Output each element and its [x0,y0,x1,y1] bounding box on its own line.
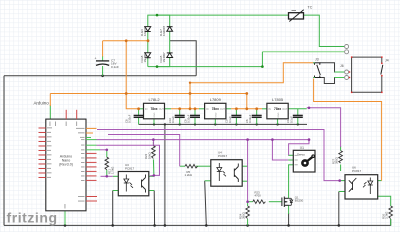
wire 5V row to R27/U6 [307,108,341,147]
WIRES-PURPLE [97,107,342,204]
optocoupler U6 PC817 (mirrored) [345,166,378,199]
capacitor C10 [168,115,185,123]
wire R11 top lead [106,150,108,157]
svg-text:PC817: PC817 [352,169,362,173]
svg-text:L7809: L7809 [210,97,222,102]
diode D-G8 (bridge bottom-left) [140,52,151,63]
wire cap C10 leads [179,109,181,116]
svg-text:390Ω: 390Ω [335,157,339,164]
thermistor TC [289,6,313,22]
svg-text:fritzing: fritzing [7,210,58,226]
wire U3 left-bottom to bus [112,191,114,226]
resistor R27 [331,151,342,164]
wire Q1 source down [288,206,290,215]
wire reg1 OUT stub [165,108,172,110]
svg-text:1N4007: 1N4007 [162,52,166,63]
wire P4 D-pin to U3 pin4 [97,145,160,175]
svg-text:78xx: 78xx [150,107,157,111]
Arduino left pin red stubs [39,128,46,178]
svg-text:IN: IN [206,108,209,111]
junction dots on ground bus [64,75,340,227]
wire cap C5 leads [235,109,237,116]
wire reg3 GND stub [277,119,279,125]
capacitor C9 [183,114,200,123]
wire P2 D-pin to R5 [108,135,180,167]
wire U6 pin4 stub [378,180,382,182]
switch J4 [351,56,389,93]
wire bottom ground bus [4,219,391,225]
U3 internal LED [124,175,133,192]
wire reg1 IN stub [139,108,144,110]
svg-text:0.1uF: 0.1uF [171,116,175,123]
wire GND rail under regulators [139,123,307,125]
purple junction dots [106,107,342,204]
diode D-G5 (bridge bottom-right) [159,52,173,63]
svg-text:78xx: 78xx [274,107,281,111]
svg-text:IN: IN [268,108,271,111]
wire C7 top green tip [102,56,104,61]
svg-text:0.33uF: 0.33uF [187,114,191,123]
wire drop to reg3 row [246,94,248,109]
wire P3 end down to servo sig pin [289,140,309,156]
svg-text:OUT: OUT [220,108,226,111]
regulator VR2 L7809 [205,97,226,119]
wire R22 top lead [152,142,154,146]
connector J6 pins [340,64,350,79]
svg-text:390Ω: 390Ω [242,212,246,219]
svg-text:GND: GND [154,112,156,117]
wire AC bottom light green to J5 pin2 [262,51,344,53]
wire R5 left lead [180,165,185,167]
fritzing watermark [7,210,58,226]
U6 internal transistor (left) [349,178,357,192]
svg-text:L7805: L7805 [272,97,284,102]
wire U3 pin3 stub [149,190,154,192]
wire U6 pin2 stub [339,191,345,193]
wire P3 branch down to servo pwr pin [272,140,288,160]
wire R23 right lead to Q1 gate [269,201,282,203]
wire reg2 GND stub [214,119,216,125]
wire P5 D-pin to R11 [100,149,107,151]
junction dots green nets [156,14,264,68]
wire reg2 IN stub [199,108,205,110]
wire row segment reg2out-reg3in [231,108,262,110]
capacitor C11 [286,115,303,123]
svg-text:0.33uF: 0.33uF [248,114,252,123]
svg-text:+: + [95,57,97,61]
wire J6 pin1 green segment [335,71,345,73]
svg-text:0.1uF: 0.1uF [289,116,293,123]
wire drop to reg2 row [189,83,191,109]
wire left vertical bus [3,76,5,226]
svg-text:OUT: OUT [159,108,165,111]
svg-text:1N4007: 1N4007 [162,25,166,36]
wire AC top from bridge to thermistor [157,14,289,16]
servo horn icon [301,154,315,167]
wire reg3 OUT stub [288,108,307,110]
wire R11 bottom lead [106,170,108,177]
svg-text:GND: GND [216,112,218,117]
capacitor C7 [95,57,120,69]
svg-text:3.3kΩ: 3.3kΩ [385,212,389,219]
svg-text:Servo: Servo [297,153,305,157]
Q1 body diode [289,198,293,205]
diode D-G6 (bridge top-left) [140,25,151,36]
svg-text:GND: GND [278,112,280,117]
servo X1 [293,146,315,172]
svg-text:J6: J6 [340,64,344,68]
wire thermistor to J5 pin1 [304,15,345,46]
resistor R26 [381,206,392,219]
svg-text:L78L2: L78L2 [148,97,160,102]
wire U3 right-bottom to bus [153,191,155,226]
wire U4 left-bottom to bus [205,181,207,226]
capacitor C5 [225,115,242,123]
svg-text:PC817: PC817 [218,154,228,158]
svg-text:0.33uF: 0.33uF [128,114,132,123]
resistor R22 [144,146,155,159]
transistor Q1 MOSFET [282,196,304,208]
wire J3 top contact to J6 pin1 [321,63,344,72]
svg-text:0.1uF: 0.1uF [228,116,232,123]
svg-text:78xx: 78xx [212,107,219,111]
wire reg2 OUT stub [226,108,231,110]
svg-text:0.1nF: 0.1nF [111,65,119,69]
svg-text:J4: J4 [385,59,389,63]
wire J3 bottom to U6 pin4 [314,79,382,181]
svg-text:TC: TC [308,6,313,10]
wire U6 left-bottom to bus [338,192,340,226]
resistor R11 [105,157,115,174]
wire C7 bottom lead [102,66,104,76]
svg-text:IN: IN [145,108,148,111]
resistor R23 [253,191,266,204]
svg-text:1.2kΩ: 1.2kΩ [185,173,192,177]
wire R24 top lead [247,202,249,206]
wire bridge bottom node to riser [157,66,262,68]
wire rail to J3 top contact [190,63,313,83]
wire vertical drop to reg1 IN [126,41,138,109]
wire U3 pin1 purple link [101,175,113,177]
svg-text:10kΩ: 10kΩ [147,152,151,159]
wire gray bus horizontal [4,75,196,77]
svg-text:1N4007: 1N4007 [143,52,147,63]
optocoupler U4 PC817 [211,151,242,187]
wire R24 bottom lead [247,219,249,225]
wire main supply rail [50,93,247,95]
Arduino U1 Nano [34,101,101,211]
wire U6 pin1 stub [340,180,345,182]
wire U4 pin2 stub [205,180,211,182]
wire cap C11 leads [297,109,299,116]
wire cap C8 leads [138,109,140,116]
svg-text:(Rev3.0): (Rev3.0) [59,163,73,167]
wire U4 pin3 stub [242,180,247,182]
capacitor C8 [125,114,144,123]
diode D-G7 (bridge top-right) [159,25,173,36]
connector J5 pins [345,45,349,54]
wire Q1 source to bus [288,213,290,225]
wire U3 pin2 stub [113,190,119,192]
wire P1 D-pin to U6 pin1 [97,130,340,181]
svg-text:X1: X1 [300,146,304,150]
wire J3 bottom contact jog to J6 pin2 [321,78,338,84]
wire R27 bottom lead [340,165,342,172]
wire bridge right node to right [170,41,197,76]
U4 internal transistor [234,164,238,183]
svg-text:BS250: BS250 [295,199,304,203]
WIRES-GRAY [4,41,391,227]
svg-text:OUT: OUT [282,108,288,111]
wire Arduino VIN drop [49,94,51,107]
svg-text:4700: 4700 [255,194,262,198]
svg-text:PC817: PC817 [125,166,135,170]
wire servo gnd pin down to Q1 drain [288,165,290,198]
svg-text:1.5kΩ: 1.5kΩ [111,167,115,174]
Arduino inner pin-label smudges [47,122,85,209]
wire servo pin stubs [288,154,293,156]
wire U6 pin3 to R26 [378,196,391,206]
junction dots on GND rail [153,123,299,125]
wire R26 bottom lead [390,219,392,225]
wire cap C6 leads [256,109,258,116]
U6 internal LED (right) [363,178,373,195]
wire R22 bottom lead [152,159,155,175]
U4 internal LED [217,163,226,181]
orange junction dots [125,39,258,110]
regulator VR1 L78L2 [144,97,165,119]
wire P3 D-pin long to servo area [97,139,310,141]
wire U3 pin1 stub [113,175,119,177]
wire P3 branch down to R22 [152,140,154,146]
wire J4 right side lower [381,76,383,93]
svg-text:Arduino: Arduino [34,101,50,106]
wire R5 right lead to U4 pin1 [196,165,211,167]
wire J4 right side upper [381,57,383,63]
servo pin labels [295,155,298,165]
wire Arduino GND bottom pin [64,211,66,225]
U3 internal transistor [142,175,146,193]
wire reg3 IN stub [262,108,267,110]
wire bridge left node to C7 branch [103,40,148,42]
bridge rectangle wires [148,15,170,67]
switch J3 [313,58,321,78]
wire J6 pin2 green segment [335,77,345,79]
wire C7 top lead [102,41,104,57]
wire AC bottom vertical riser [261,52,263,67]
wire R23 left lead [248,201,253,203]
wire J4 frame left/bottom [352,56,382,58]
wire reg1 GND stub [153,119,155,125]
wire P4 tail to U3 pin [150,174,154,177]
WIRES-GREEN [50,14,390,226]
resistor R24 [238,206,249,219]
Arduino right pin stubs [86,128,100,201]
regulator VR3 L7805 [267,97,288,119]
capacitor C6 [245,114,262,123]
WIRES-ORANGE [50,39,381,180]
wire Arduino VIN green tip [49,105,51,119]
svg-text:1N4007: 1N4007 [143,25,147,36]
wire cap C9 leads [194,109,196,116]
wire U3 pin4 stub [149,175,154,177]
wire GND rail drop to bus [164,124,166,225]
wire R27 top purple-to-green tip [340,146,342,151]
optocoupler U3 PC817 [118,163,149,196]
resistor R5 [185,164,198,177]
Arduino top red stubs [66,110,77,119]
svg-text:J3: J3 [315,58,319,62]
wire row segment reg1out-reg2in [171,108,199,110]
wire P3 branch down to R23 node [247,140,249,202]
wire U4 pin4 stub [242,165,247,167]
